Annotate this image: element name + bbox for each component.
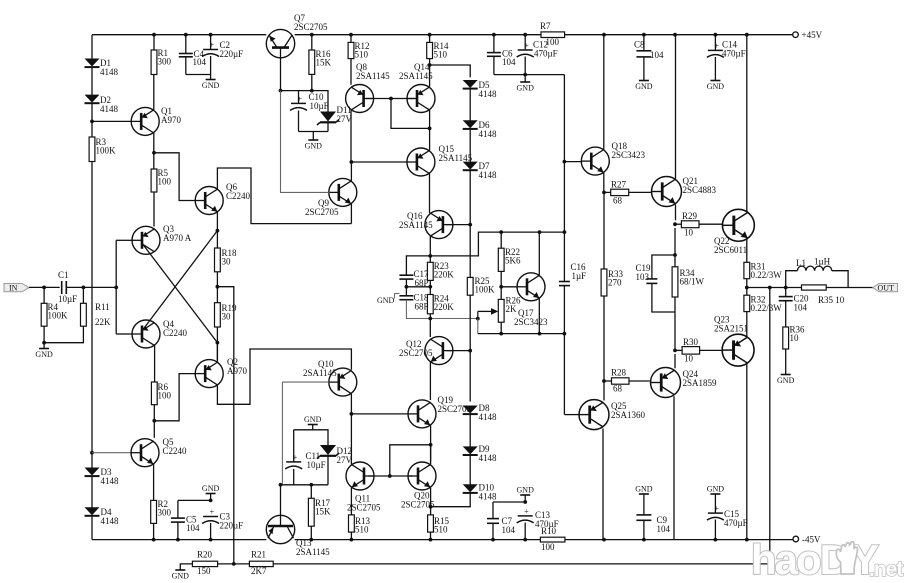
wire Q19 base wire — [351, 413, 408, 415]
diode D7 — [463, 161, 497, 180]
wire vas top net — [430, 232, 564, 256]
resistor R5 — [151, 168, 171, 192]
transistor Q11 — [346, 462, 381, 513]
junction rail-C14 — [714, 33, 718, 37]
wire C16 bottom lead — [563, 286, 565, 334]
wire Q17 base wire — [501, 286, 517, 288]
resistor R30 — [682, 337, 700, 364]
svg-text:470µF: 470µF — [535, 519, 559, 529]
wire base link up — [390, 445, 431, 476]
svg-text:4148: 4148 — [101, 516, 120, 526]
junction C16 top node — [563, 230, 567, 234]
svg-text:2SC2705: 2SC2705 — [347, 503, 381, 513]
wire R20 left lead — [180, 564, 192, 570]
wire R18-R19 link — [216, 272, 218, 303]
svg-text:2K7: 2K7 — [251, 566, 267, 576]
svg-text:220µF: 220µF — [220, 49, 244, 59]
wire bus left — [92, 539, 266, 541]
capacitor C8 — [634, 40, 664, 61]
wire bus right — [565, 539, 793, 541]
svg-text:10µF: 10µF — [58, 294, 77, 304]
svg-text:510: 510 — [355, 50, 369, 60]
wire C2-C4 gnd bracket — [186, 74, 211, 76]
wire bus mid — [295, 539, 541, 541]
wire C10 gnd stem — [312, 132, 314, 141]
wire +45V rail left — [92, 34, 266, 36]
terminal IN — [4, 284, 29, 293]
wire C14 top lead — [714, 35, 716, 51]
capacitor C19 — [636, 263, 658, 283]
wire C12 bottom lead — [524, 57, 526, 75]
svg-text:220K: 220K — [434, 270, 455, 280]
svg-text:2SC2705: 2SC2705 — [399, 348, 433, 358]
wire Q9 collector up — [350, 162, 352, 181]
svg-text:2SC3423: 2SC3423 — [514, 317, 548, 327]
svg-text:68: 68 — [613, 384, 623, 394]
diode D6 — [463, 120, 497, 139]
junction bus-R15 — [429, 538, 433, 542]
transistor Q5 — [131, 437, 187, 467]
svg-text:4148: 4148 — [479, 170, 498, 180]
junction R19 bottom node — [216, 341, 220, 345]
junction Q17e node — [538, 332, 542, 336]
junction Q11Q20 base node — [388, 474, 392, 478]
capacitor C3 — [202, 508, 243, 531]
transistor Q1 — [131, 106, 181, 135]
wire Q10 collector down — [350, 394, 352, 414]
svg-text:68/1W: 68/1W — [680, 277, 705, 287]
junction rail-C2 — [209, 33, 213, 37]
wire C6C12 gnd bracket — [494, 74, 565, 76]
wire Q11 emitter down — [350, 488, 352, 515]
wire R11 top lead — [82, 287, 84, 303]
svg-text:4148: 4148 — [101, 476, 120, 486]
junction fb-column node — [232, 562, 236, 566]
wire Q5 emitter down — [153, 464, 155, 500]
transistor Q10 — [303, 359, 357, 396]
svg-text:10: 10 — [790, 333, 800, 343]
wire Q22 collector up — [746, 35, 748, 212]
svg-text:2SA1859: 2SA1859 — [683, 378, 718, 388]
wire Q19 emitter down — [430, 426, 432, 462]
ground above C11 box — [304, 415, 322, 425]
wire R1 top lead — [153, 35, 155, 50]
wire C13 bottom lead — [524, 523, 526, 540]
capacitor C2 — [202, 40, 243, 59]
junction R17 top node — [309, 483, 313, 487]
diode D8 — [463, 403, 497, 422]
terminal -45V — [793, 535, 821, 545]
svg-text:+: + — [524, 507, 529, 516]
svg-text:R35 10: R35 10 — [818, 295, 845, 305]
transistor Q2 — [195, 357, 247, 388]
transistor Q23 — [714, 315, 754, 367]
wire left rail D1-D2 — [91, 67, 93, 96]
junction R30 left node — [673, 349, 677, 353]
svg-text:2K: 2K — [506, 304, 518, 314]
terminal +45V — [793, 30, 823, 40]
svg-text:GND: GND — [202, 484, 220, 493]
svg-text:10µF: 10µF — [310, 101, 329, 111]
svg-text:A970: A970 — [161, 115, 181, 125]
diode D5 — [463, 80, 497, 99]
svg-text:R28: R28 — [611, 368, 627, 378]
transistor Q12 — [399, 337, 453, 365]
junction gnd node R4 — [42, 341, 46, 345]
wire C14 bottom lead — [714, 57, 716, 80]
junction C12 gnd node — [523, 73, 527, 77]
wire Q6 emitter lead — [216, 212, 218, 248]
resistor R16 — [309, 49, 332, 74]
wire diode chain top — [430, 65, 471, 77]
svg-text:100K: 100K — [48, 311, 69, 321]
resistor R28 — [611, 368, 629, 394]
resistor R31 — [744, 262, 782, 281]
resistor R6 — [151, 382, 171, 405]
svg-text:2SC4883: 2SC4883 — [683, 185, 717, 195]
junction Q13 base node — [279, 483, 283, 487]
wire Q7 base lead — [280, 58, 282, 91]
wire bias box bottom — [299, 131, 329, 133]
svg-text:R11: R11 — [95, 302, 110, 312]
wire base link drop — [391, 99, 430, 129]
wire R26 bottom lead — [500, 322, 502, 333]
junction R28 left node — [602, 379, 606, 383]
junction R24 bot node — [428, 317, 432, 321]
wire Q13 base lead — [280, 485, 282, 516]
svg-text:4148: 4148 — [479, 412, 498, 422]
resistor R32 — [744, 295, 782, 314]
wire R26 top lead — [500, 287, 502, 300]
svg-text:4148: 4148 — [100, 67, 119, 77]
junction C3 gnd node — [209, 499, 213, 503]
ground above C9 — [635, 485, 653, 495]
wire C7 bottom lead — [492, 523, 494, 539]
svg-text:A970 A: A970 A — [163, 233, 192, 243]
svg-text:.net: .net — [869, 558, 903, 581]
ground under C2 — [202, 80, 220, 91]
wire D5-D6 — [469, 89, 471, 121]
svg-text:15K: 15K — [315, 507, 331, 517]
svg-text:100K: 100K — [96, 146, 117, 156]
resistor R20 — [192, 550, 217, 577]
junction Q1 base node — [90, 120, 94, 124]
junction rail-R1 — [152, 33, 156, 37]
svg-text:GND: GND — [517, 84, 535, 93]
junction C mid node — [405, 285, 409, 289]
svg-text:GND: GND — [635, 485, 653, 494]
svg-text:68: 68 — [613, 196, 623, 206]
wire C17C18 mid link — [405, 279, 407, 296]
junction Q12 base node — [468, 349, 472, 353]
svg-text:R20: R20 — [197, 550, 213, 560]
resistor R2 — [151, 499, 172, 523]
svg-text:5K6: 5K6 — [505, 256, 521, 266]
wire C11 box bottom — [281, 484, 329, 486]
wire Q4 collector down — [154, 346, 156, 383]
capacitor C20 — [779, 294, 809, 313]
wire Q1 emitter to R1 — [153, 75, 155, 111]
wire C10 top lead — [298, 91, 300, 104]
svg-text:4148: 4148 — [100, 104, 119, 114]
resistor R10 — [540, 526, 565, 552]
wire C4 top lead — [185, 35, 187, 54]
svg-text:10: 10 — [684, 228, 694, 238]
wire Q1 base wire — [92, 120, 131, 122]
junction bus-Q23 — [745, 538, 749, 542]
svg-text:27V: 27V — [337, 114, 353, 124]
wire C11 bottom lead — [293, 469, 295, 485]
svg-text:+: + — [210, 508, 215, 517]
wire wiper tail — [477, 319, 479, 334]
junction bus-R13 — [350, 538, 354, 542]
svg-text:GND: GND — [305, 142, 323, 151]
junction R11 top node — [82, 286, 86, 290]
wire R28 right lead — [629, 380, 650, 382]
junction rail-Q21 — [673, 33, 677, 37]
svg-text:2SC2705: 2SC2705 — [294, 22, 328, 32]
wire C8 bottom lead — [643, 57, 645, 80]
svg-text:30: 30 — [222, 312, 232, 322]
wire R19 bottom — [216, 327, 218, 360]
watermark haoDIY.net — [751, 536, 903, 583]
junction R29 left node — [673, 222, 677, 226]
resistor R25 — [467, 276, 495, 295]
svg-text:C2240: C2240 — [226, 191, 251, 201]
svg-text:C1: C1 — [58, 270, 69, 280]
svg-text:C2240: C2240 — [163, 328, 188, 338]
svg-text:OUT: OUT — [878, 284, 895, 293]
junction Q19 base node — [350, 412, 354, 416]
svg-text:haoD: haoD — [751, 536, 849, 583]
resistor R19 — [215, 303, 238, 327]
capacitor C18 — [399, 293, 429, 312]
svg-text:270: 270 — [608, 278, 622, 288]
wire C12 top lead — [524, 35, 526, 50]
wire R6 bottom — [153, 405, 155, 438]
capacitor C6 — [487, 49, 516, 68]
resistor R35 — [802, 285, 827, 290]
svg-text:+: + — [293, 453, 298, 462]
wire Q21e column down — [674, 228, 676, 267]
svg-text:68P: 68P — [415, 302, 429, 312]
wire R31 bottom lead — [746, 279, 748, 296]
svg-text:2SA1145: 2SA1145 — [296, 547, 330, 557]
ground above C13 — [517, 486, 535, 496]
junction rail-C8 — [642, 33, 646, 37]
junction Q5 base node — [90, 451, 94, 455]
junction output node — [745, 286, 749, 290]
resistor R36 — [783, 325, 805, 350]
wire C4 bottom lead — [185, 57, 187, 75]
junction R23 top node — [428, 254, 432, 258]
wire R15 bottom lead — [430, 532, 432, 540]
svg-text:0.22/3W: 0.22/3W — [751, 303, 783, 313]
wire base column — [115, 240, 117, 334]
wire Q1 collector down — [153, 133, 155, 169]
wire C9 bottom lead — [643, 520, 645, 539]
ground under C14 — [707, 81, 725, 92]
wire C3 gnd stem — [210, 494, 212, 500]
wire R12 top lead — [350, 35, 352, 43]
ground above C3 — [202, 484, 220, 494]
wire Q9 base wire — [281, 91, 330, 193]
wire Q21 collector up — [675, 35, 677, 179]
junction base link node — [389, 97, 393, 101]
diode D2 — [85, 95, 119, 114]
transistor Q14 — [399, 62, 435, 113]
wire R14 bottom lead — [429, 59, 431, 87]
capacitor C12 — [517, 40, 558, 59]
wire Q14c-Q15 link — [429, 128, 431, 150]
wire Q2 collector up — [216, 343, 218, 362]
ground under R4 — [35, 349, 53, 360]
wire R17 top lead — [310, 485, 312, 499]
wire R29 left lead — [675, 223, 681, 225]
wire C10 bottom lead — [298, 111, 300, 132]
svg-text:103: 103 — [636, 272, 650, 282]
wire left rail R3-D3 — [91, 162, 93, 469]
svg-text:22K: 22K — [95, 317, 111, 327]
wire C16-Q25 column — [563, 334, 565, 415]
junction rail-Q22 — [745, 33, 749, 37]
svg-text:GND: GND — [304, 415, 322, 424]
wire Q17 collector up — [538, 232, 540, 275]
ground under C8 — [635, 81, 653, 92]
svg-text:470µF: 470µF — [722, 49, 746, 59]
wire Q14 collector down — [429, 110, 431, 128]
wire R27 left lead — [604, 191, 611, 193]
wire C12 gnd stem — [524, 75, 526, 82]
resistor R13 — [349, 515, 371, 535]
wire Q16 base wire — [446, 224, 470, 226]
transistor Q22 — [714, 209, 754, 255]
wire feedback line — [273, 288, 770, 564]
transistor Q3 — [132, 224, 192, 254]
wire D7-R25 — [469, 170, 471, 277]
wire input wire — [29, 286, 60, 288]
svg-text:300: 300 — [158, 57, 172, 67]
svg-text:100: 100 — [158, 391, 172, 401]
wire R23-R24 link — [429, 280, 431, 294]
junction Q15 base node — [350, 160, 354, 164]
svg-text:IN: IN — [9, 284, 18, 293]
transistor Q15 — [407, 144, 473, 176]
junction R4 top node — [42, 286, 46, 290]
svg-text:2SC3423: 2SC3423 — [612, 150, 646, 160]
svg-text:C2240: C2240 — [163, 446, 188, 456]
wire R5 to Q3 — [153, 192, 155, 227]
ground under C10 — [305, 140, 323, 151]
wire Q22 emitter down — [746, 239, 748, 262]
svg-text:A970: A970 — [227, 366, 247, 376]
svg-text:510: 510 — [434, 50, 448, 60]
svg-text:10µF: 10µF — [307, 460, 326, 470]
potentiometer wiper R26 — [478, 308, 499, 319]
wire R34 bottom lead — [674, 297, 676, 350]
wire D11 bottom lead — [327, 122, 329, 131]
wire Q8-Q14 base link — [366, 98, 414, 100]
svg-text:GND: GND — [35, 350, 53, 359]
wire Q18 collector up — [603, 35, 605, 150]
wire C3 bottom lead — [210, 523, 212, 540]
capacitor C7 — [487, 516, 516, 535]
wire Q2 emitter path — [217, 349, 351, 404]
junction Q17 base node — [499, 285, 503, 289]
junction bus-R17 — [309, 538, 313, 542]
junction C13 gnd node — [523, 500, 527, 504]
wire R30 left lead — [675, 349, 682, 351]
resistor R18 — [215, 248, 238, 272]
wire C20 top lead — [785, 288, 787, 297]
junction diff base node — [114, 286, 118, 290]
svg-text:510: 510 — [355, 525, 369, 535]
junction R26 bot node — [499, 332, 503, 336]
svg-text:GND: GND — [377, 296, 395, 305]
wire Q18 base wire — [564, 161, 581, 163]
ground C18 — [377, 294, 399, 306]
svg-text:2SC6011: 2SC6011 — [714, 245, 747, 255]
inductor L1 — [786, 257, 848, 288]
wire C15 top lead — [714, 494, 716, 513]
ground under R36 — [777, 375, 795, 386]
svg-text:GND: GND — [707, 82, 725, 91]
junction R16 node — [310, 89, 314, 93]
wire C17 top path — [406, 256, 430, 275]
svg-text:220µF: 220µF — [220, 521, 244, 531]
svg-text:+45V: +45V — [802, 30, 823, 40]
wire Q10 base column — [281, 382, 283, 485]
wire Q11-Q20 base link — [368, 475, 412, 477]
wire R14 top lead — [429, 35, 431, 43]
wire R20-R21 link — [218, 563, 250, 565]
wire mid link to R — [406, 286, 430, 288]
svg-text:15K: 15K — [316, 58, 332, 68]
junction R18 top node — [216, 229, 220, 233]
svg-text:104: 104 — [650, 50, 664, 60]
junction bias top node — [428, 63, 432, 67]
wire R32 bottom lead — [746, 312, 748, 337]
wire bias box top — [281, 91, 329, 112]
svg-text:R30: R30 — [683, 337, 699, 347]
transistor Q24 — [651, 368, 717, 398]
diode D12 — [317, 445, 353, 465]
resistor R23 — [427, 261, 454, 280]
wire C5 bottom lead — [177, 522, 179, 540]
wire Q8 collector down — [350, 110, 352, 162]
transistor Q21 — [652, 176, 717, 206]
svg-text:1µF: 1µF — [572, 271, 587, 281]
junction Q1c-R5 node — [152, 151, 156, 155]
diode D4 — [85, 507, 120, 526]
wire Q4 emitter diagonal — [143, 231, 217, 330]
svg-text:4148: 4148 — [479, 453, 498, 463]
svg-text:100: 100 — [158, 177, 172, 187]
wire Q20 collector up — [430, 445, 432, 465]
wire R29 right lead — [699, 223, 723, 225]
wire C11 top lead — [293, 430, 295, 462]
wire Q5 base wire — [92, 452, 131, 454]
resistor R14 — [427, 41, 449, 60]
svg-text:104: 104 — [657, 524, 671, 534]
wire C5 top lead — [177, 500, 179, 518]
wire R16 top lead — [311, 35, 313, 50]
resistor R33 — [601, 269, 623, 296]
svg-text:100K: 100K — [475, 285, 496, 295]
resistor R34 — [672, 267, 704, 297]
transistor Q19 — [408, 395, 472, 428]
resistor R29 — [681, 211, 699, 238]
